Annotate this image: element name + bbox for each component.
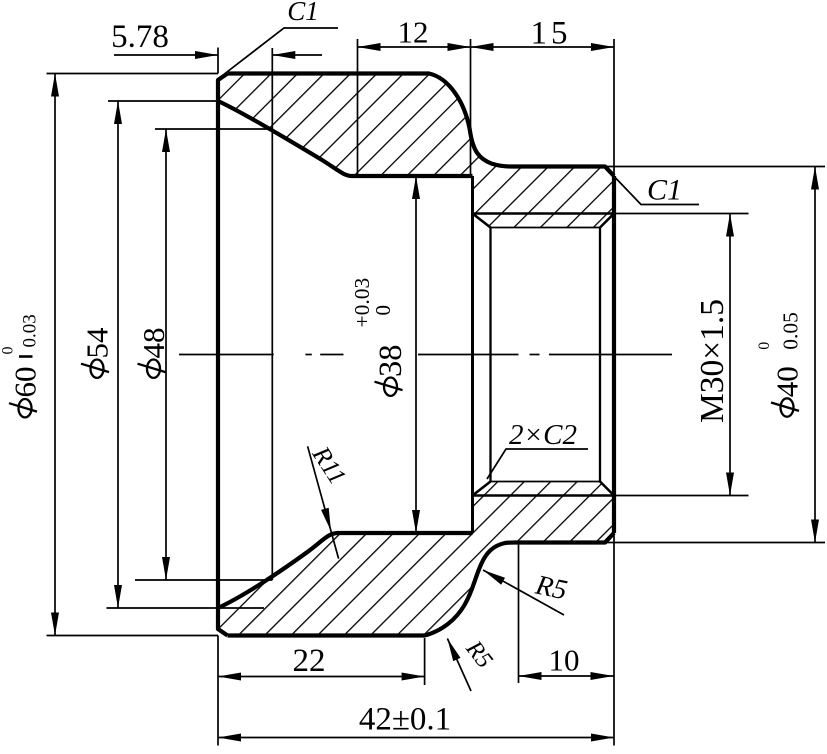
dim text phi60 with tolerance: [0, 314, 43, 417]
svg-text:15: 15: [531, 16, 572, 52]
svg-text:40: 40: [770, 366, 805, 397]
dim line 12 and 15: [358, 46, 615, 48]
ext phi48 top: [155, 128, 272, 130]
arrow phi60 up: [51, 74, 59, 97]
part outline: left face with chamfers: [218, 74, 228, 636]
ext phi48 bottom: [135, 579, 272, 581]
arrow 10 right: [591, 672, 614, 680]
svg-text:0.03: 0.03: [20, 314, 41, 347]
arrow phi38 up: [412, 176, 420, 199]
hatch lower section: [218, 482, 614, 636]
arrow R11: [321, 508, 331, 531]
dim line phi48: [165, 129, 167, 580]
bore upper taper curve (phi54 to phi38, R11 fillet): [218, 101, 473, 176]
arrow 42 left: [218, 734, 241, 742]
dim text phi54: [80, 327, 115, 378]
ext right face bottom (x=614): [613, 533, 615, 746]
ext 22/42 left (x=218 below part): [217, 636, 219, 746]
arrow phi48 down: [162, 557, 170, 580]
centerline: [179, 354, 672, 356]
ext 10 left (x=518.5): [518, 543, 520, 683]
ext 5.78 right (x=272.3 down to phi48 point): [271, 48, 273, 580]
arrow 12 left: [358, 43, 381, 51]
svg-text:42±0.1: 42±0.1: [359, 702, 451, 738]
thread chamfer slant bottom-right: [600, 482, 614, 496]
dim text phi40 with tolerance: [756, 312, 805, 417]
svg-text:54: 54: [80, 327, 115, 359]
svg-text:C1: C1: [287, 0, 319, 26]
arrow 5.78 right-pointing: [195, 51, 218, 59]
dim text phi48: [136, 328, 171, 378]
part outline: right face (visible through bore): [612, 176, 616, 533]
arrow phi54 down: [114, 585, 122, 608]
ext 12/15 common (x=470.5): [470, 39, 472, 176]
svg-text:12: 12: [398, 15, 429, 50]
dim line M30: [729, 214, 731, 496]
leader R5 lower: [447, 639, 471, 692]
ext 5.78 left (x=218 above part): [217, 48, 219, 74]
ext 15 right / right face top (x=614): [613, 39, 615, 176]
svg-text:0: 0: [371, 305, 395, 316]
leader C1 right: [606, 168, 699, 205]
arrow 15 right: [591, 43, 614, 51]
thread major line bottom: [473, 494, 615, 497]
svg-text:38: 38: [373, 345, 409, 378]
ext phi40 top: [606, 166, 825, 168]
arrow 12 right: [448, 43, 471, 51]
svg-text:M30×1.5: M30×1.5: [694, 299, 731, 423]
ext phi54 top: [108, 100, 218, 102]
thread chamfer slant bottom-left: [473, 482, 491, 496]
arrow M30 down: [726, 473, 734, 496]
label R5 upper: [532, 569, 570, 606]
ext phi54 bottom: [107, 607, 265, 609]
arrow 22 left: [218, 673, 241, 681]
svg-text:5.78: 5.78: [111, 19, 169, 55]
ext phi60 top: [47, 73, 219, 75]
arrow 10 left: [519, 672, 542, 680]
dim line phi60: [54, 74, 56, 636]
thread chamfer slant top-left: [473, 214, 491, 228]
thread chamfer circle edge left: [489, 228, 491, 482]
ext M30 bottom: [614, 495, 749, 497]
svg-text:0: 0: [756, 342, 773, 350]
ext M30 top: [614, 213, 749, 215]
leader 2xC2: [487, 449, 588, 479]
dim line 22: [218, 676, 425, 678]
ext 12 left (x=357.5): [357, 39, 359, 176]
thread chamfer slant top-right: [600, 214, 614, 228]
label R11: [306, 440, 352, 489]
bore step face at x=472.5: [471, 176, 474, 533]
svg-text:10: 10: [549, 643, 580, 678]
dim line phi54: [117, 101, 119, 608]
arrow 42 right: [591, 734, 614, 742]
hatch upper section: [218, 74, 614, 228]
ext 22 right (x=424.6): [424, 638, 426, 685]
svg-text:+0.03: +0.03: [350, 278, 374, 328]
svg-text:R5: R5: [532, 569, 570, 606]
arrow phi60 down: [51, 613, 59, 636]
svg-text:2×C2: 2×C2: [509, 419, 577, 451]
thread minor line top: [491, 227, 601, 229]
dim text M30x1.5: [694, 299, 731, 423]
arrow 5.78 left-pointing: [272, 51, 295, 59]
arrow phi40 up: [811, 167, 819, 190]
thread major line top: [473, 212, 615, 215]
arrow R5 upper: [483, 570, 505, 585]
arrow 22 right: [402, 673, 425, 681]
leader R5 upper: [483, 570, 564, 615]
thread minor line bottom: [491, 481, 601, 483]
leader C1 top: [225, 28, 338, 74]
svg-text:C1: C1: [647, 174, 682, 207]
arrow phi40 down: [811, 520, 819, 543]
part outline: top surface, flange corner, neck, phi40 top, chamfer: [228, 74, 615, 177]
arrow R5 lower: [447, 639, 460, 662]
dim line 42: [218, 737, 614, 739]
part outline: bottom chamfer, phi40 bottom, lower S-curve, bottom surface: [228, 533, 615, 636]
ext phi60 bottom: [47, 635, 219, 637]
arrow phi38 down: [412, 510, 420, 533]
leader R11: [308, 446, 339, 558]
svg-text:60: 60: [8, 367, 43, 398]
arrow phi54 up: [114, 101, 122, 124]
arrow phi48 up: [162, 129, 170, 152]
ext phi40 bottom: [606, 542, 825, 544]
dim text phi38 with tolerance: [350, 278, 409, 396]
thread chamfer circle edge right: [599, 228, 601, 482]
dim line phi40: [814, 167, 816, 543]
label R5 lower: [460, 635, 498, 673]
svg-text:0.05: 0.05: [779, 312, 803, 350]
dim line 10: [519, 675, 614, 677]
arrow 15 left: [471, 43, 494, 51]
arrow M30 up: [726, 214, 734, 237]
svg-text:22: 22: [293, 643, 326, 679]
svg-text:48: 48: [136, 328, 171, 359]
bore lower taper curve: [218, 533, 473, 608]
dim line phi38: [415, 176, 417, 533]
svg-text:0: 0: [0, 347, 17, 355]
dim line 5.78: [114, 54, 218, 56]
